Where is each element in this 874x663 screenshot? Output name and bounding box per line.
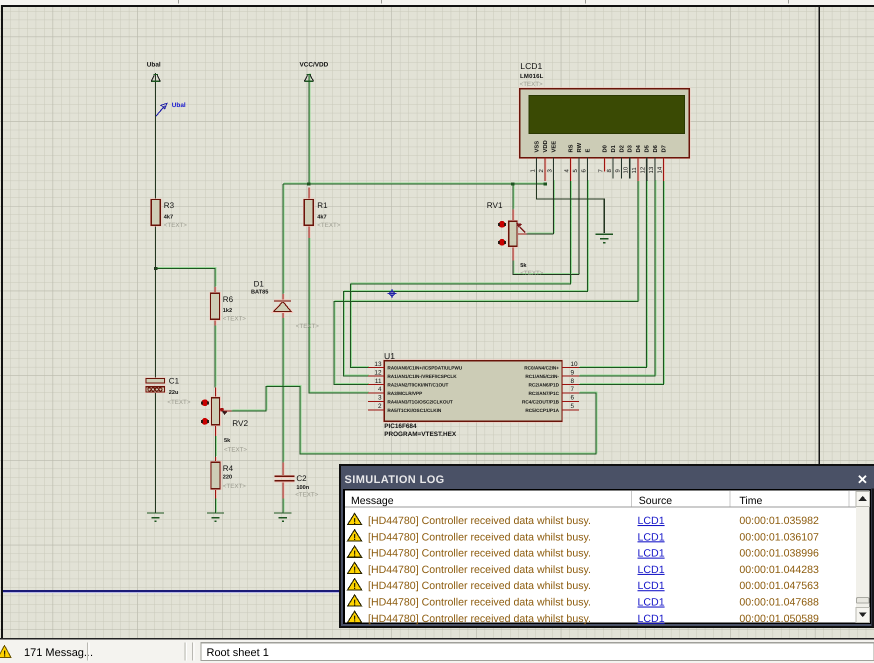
svg-text:LCD1: LCD1 — [638, 548, 665, 560]
ground (LCD VSS) — [596, 234, 613, 242]
red pin stubs RV1 — [513, 209, 527, 260]
wire VDD rail — [283, 183, 545, 185]
svg-text:RA2/AN2/T0CKI/INT/C1OUT: RA2/AN2/T0CKI/INT/C1OUT — [387, 383, 448, 388]
svg-text:5k: 5k — [224, 437, 231, 444]
svg-text:00:00:01.038996: 00:00:01.038996 — [739, 548, 819, 560]
svg-text:<TEXT>: <TEXT> — [520, 81, 543, 88]
header separators — [631, 491, 633, 507]
svg-text:Source: Source — [639, 495, 672, 507]
svg-text:<TEXT>: <TEXT> — [520, 270, 543, 277]
rotated pin names — [534, 140, 668, 152]
svg-text:00:00:01.050589: 00:00:01.050589 — [739, 613, 819, 625]
svg-text:RC5/CCP1/P1A: RC5/CCP1/P1A — [525, 408, 559, 413]
node A junction — [154, 267, 157, 270]
diode D1 — [251, 280, 319, 330]
svg-text:RC4/C2OUT/P1B: RC4/C2OUT/P1B — [522, 399, 560, 404]
svg-text:R4: R4 — [223, 464, 234, 473]
origin marker (blue diamond) — [388, 289, 397, 298]
potentiometer RV2 — [201, 398, 249, 454]
simulation log window — [340, 465, 874, 627]
svg-text:RV2: RV2 — [232, 419, 248, 428]
svg-text:2: 2 — [378, 403, 382, 410]
svg-text:Time: Time — [739, 495, 762, 507]
svg-text:5k: 5k — [520, 262, 527, 269]
left pin stubs — [368, 368, 385, 410]
svg-text:00:00:01.047563: 00:00:01.047563 — [739, 580, 819, 592]
capacitor C1 (electrolytic) — [146, 377, 191, 407]
svg-text:VSS: VSS — [534, 141, 541, 153]
svg-text:D1: D1 — [254, 280, 265, 289]
svg-text:<TEXT>: <TEXT> — [296, 323, 319, 330]
left pin numbers — [374, 361, 382, 410]
svg-text:5: 5 — [571, 403, 575, 410]
svg-text:1k2: 1k2 — [223, 307, 232, 314]
svg-text:[HD44780] Controller received: [HD44780] Controller received data whils… — [368, 531, 591, 543]
svg-text:D0: D0 — [601, 145, 608, 152]
svg-text:D6: D6 — [652, 144, 659, 152]
svg-text:9: 9 — [571, 369, 575, 376]
red pin stubs R3 column — [214, 287, 216, 325]
svg-text:!: ! — [353, 614, 356, 624]
svg-text:10: 10 — [623, 166, 630, 173]
sheet bottom border (dark blue) — [3, 591, 874, 593]
svg-text:[HD44780] Controller received: [HD44780] Controller received data whils… — [368, 548, 591, 560]
resistor R1 — [304, 200, 340, 230]
svg-text:171 Messag...: 171 Messag... — [24, 647, 93, 659]
svg-text:RV1: RV1 — [487, 201, 503, 210]
svg-text:4k7: 4k7 — [164, 214, 173, 221]
svg-text:!: ! — [353, 581, 356, 591]
svg-text:VEE: VEE — [552, 141, 558, 153]
svg-text:Message: Message — [351, 495, 394, 507]
wire node A to R6 and down pot chain — [156, 269, 216, 514]
svg-text:00:00:01.047688: 00:00:01.047688 — [739, 597, 819, 609]
svg-text:VDD: VDD — [543, 140, 549, 152]
svg-text:RA4/AN3/T1G/OSC2/CLKOUT: RA4/AN3/T1G/OSC2/CLKOUT — [387, 399, 453, 404]
svg-text:[HD44780] Controller received: [HD44780] Controller received data whils… — [368, 580, 591, 592]
right pin numbers — [571, 361, 579, 410]
actuator dots — [202, 399, 209, 406]
svg-text:00:00:01.035982: 00:00:01.035982 — [739, 515, 819, 527]
ground (C2) — [274, 513, 291, 521]
wire R3 bottom to node A — [155, 225, 157, 268]
actuator dots — [499, 221, 506, 228]
svg-text:PIC16F684: PIC16F684 — [384, 423, 417, 430]
resistor R3 — [151, 200, 187, 230]
list panel — [344, 490, 870, 623]
svg-text:D5: D5 — [645, 144, 651, 152]
wire C1 bottom to ground — [155, 392, 157, 513]
wire U1 pin7 to RV2 wiper — [231, 387, 596, 454]
svg-text:LCD1: LCD1 — [638, 564, 665, 576]
svg-text:D2: D2 — [618, 145, 625, 152]
svg-text:RC3/AN7/P1C: RC3/AN7/P1C — [529, 391, 560, 396]
right pin stubs — [562, 368, 579, 410]
wire R1 to MCLR pin4 — [309, 238, 368, 393]
svg-text:!: ! — [353, 548, 356, 558]
svg-text:14: 14 — [657, 166, 664, 173]
svg-text:U1: U1 — [384, 351, 395, 361]
red pin stub RV2 wiper — [220, 410, 231, 412]
svg-text:R6: R6 — [223, 295, 234, 304]
svg-text:LCD1: LCD1 — [638, 515, 665, 527]
svg-text:3: 3 — [378, 395, 382, 402]
wire VCC stem — [308, 74, 310, 184]
svg-text:[HD44780] Controller received: [HD44780] Controller received data whils… — [368, 564, 591, 576]
svg-text:[HD44780] Controller received: [HD44780] Controller received data whils… — [368, 515, 591, 527]
svg-text:00:00:01.036107: 00:00:01.036107 — [739, 531, 819, 543]
svg-text:10: 10 — [571, 361, 579, 368]
svg-text:!: ! — [353, 597, 356, 607]
svg-text:D7: D7 — [662, 145, 668, 152]
wire LCD RS to U1 pin13 — [351, 181, 571, 368]
svg-text:00:00:01.044283: 00:00:01.044283 — [739, 564, 819, 576]
svg-text:11: 11 — [375, 378, 382, 385]
svg-text:12: 12 — [374, 369, 382, 376]
svg-text:<TEXT>: <TEXT> — [164, 222, 187, 229]
wire LCD D4 to U1 pin11 — [334, 181, 638, 385]
svg-text:!: ! — [353, 532, 356, 542]
pink companions of red pin stubs — [216, 158, 665, 499]
power terminal VCC/VDD — [300, 62, 329, 82]
svg-text:C1: C1 — [169, 377, 180, 386]
svg-text:RS: RS — [568, 144, 575, 152]
svg-text:RA3/MCLR/VPP: RA3/MCLR/VPP — [387, 391, 422, 396]
svg-text:✕: ✕ — [857, 472, 868, 487]
svg-text:D3: D3 — [627, 144, 634, 152]
window frame — [340, 465, 874, 627]
svg-text:R1: R1 — [317, 201, 328, 210]
svg-text:220: 220 — [223, 475, 232, 481]
right pin names — [522, 366, 560, 413]
svg-text:RC0/AN4/C2IN+: RC0/AN4/C2IN+ — [524, 366, 559, 371]
svg-text:<TEXT>: <TEXT> — [295, 492, 318, 499]
rotated pin numbers — [530, 166, 664, 173]
svg-text:RA5/T1CKI/OSC1/CLKIN: RA5/T1CKI/OSC1/CLKIN — [387, 408, 442, 413]
wire LCD E to U1 pin12 — [344, 181, 588, 376]
svg-text:<TEXT>: <TEXT> — [317, 222, 340, 229]
wire label Ubal (blue) — [156, 102, 186, 116]
wiper arrow — [220, 408, 224, 412]
svg-text:RA0/AN0/C1IN+/ICSPDAT/ULPWU: RA0/AN0/C1IN+/ICSPDAT/ULPWU — [387, 366, 462, 371]
svg-text:Root sheet 1: Root sheet 1 — [207, 647, 269, 659]
junction RV1/rail — [511, 182, 514, 185]
scrollbar — [856, 491, 870, 623]
svg-text:D4: D4 — [636, 144, 642, 152]
svg-text:6: 6 — [571, 395, 575, 402]
svg-text:11: 11 — [631, 167, 638, 174]
svg-text:LCD1: LCD1 — [520, 61, 542, 71]
svg-text:RA1/AN1/C1IN-/VREF/ICSPCLK: RA1/AN1/C1IN-/VREF/ICSPCLK — [387, 374, 457, 379]
potentiometer RV1 — [487, 201, 544, 277]
svg-text:100n: 100n — [296, 485, 309, 491]
status bar — [0, 638, 874, 663]
ground (C1) — [147, 513, 164, 521]
svg-text:PROGRAM=VTEST.HEX: PROGRAM=VTEST.HEX — [384, 431, 457, 438]
sheet right border — [818, 7, 820, 465]
wiper arrow — [520, 227, 526, 233]
wire RV1 top from rail — [512, 184, 514, 209]
LOG_ROWS — [348, 513, 819, 624]
power terminal Ubal — [147, 62, 161, 82]
wire RV1 bottom to LCD RW — [513, 181, 579, 275]
editor frame border top — [1, 5, 874, 7]
svg-text:[HD44780] Controller received: [HD44780] Controller received data whils… — [368, 597, 591, 609]
wire node A down to C1 — [155, 269, 157, 379]
status warning icon (clipped) — [0, 646, 11, 658]
root sheet box — [201, 643, 874, 661]
svg-text:!: ! — [353, 516, 356, 526]
resistor R4 — [211, 462, 246, 490]
red pin stubs D1/C2 — [282, 294, 284, 498]
svg-text:SIMULATION LOG: SIMULATION LOG — [345, 474, 445, 486]
editor frame border left — [1, 5, 3, 638]
junction VCC/rail — [307, 182, 310, 185]
svg-text:8: 8 — [571, 378, 575, 385]
svg-text:<TEXT>: <TEXT> — [224, 446, 247, 453]
svg-text:RC1/AN5/C2IN-: RC1/AN5/C2IN- — [525, 374, 559, 379]
svg-text:!: ! — [3, 649, 6, 659]
light-green companions of live green wires — [157, 73, 665, 512]
svg-text:[HD44780] Controller received: [HD44780] Controller received data whils… — [368, 613, 591, 625]
svg-text:<TEXT>: <TEXT> — [223, 315, 246, 322]
svg-text:13: 13 — [648, 166, 655, 173]
wire Ubal: power stem down to R3 — [155, 73, 157, 200]
svg-text:D1: D1 — [611, 144, 617, 152]
svg-text:E: E — [585, 149, 591, 153]
svg-text:LCD1: LCD1 — [638, 597, 665, 609]
capacitor C2 — [275, 474, 319, 498]
wire LCD VSS to ground — [537, 181, 605, 233]
svg-text:BAT85: BAT85 — [251, 290, 268, 296]
wire RV1 wiper to VEE — [527, 181, 554, 234]
resistor R6 — [211, 293, 247, 322]
wire LCD D7 to U1 pin8 — [579, 181, 664, 385]
top ruler strip — [0, 0, 874, 5]
wire D1 column — [282, 184, 284, 513]
svg-text:12: 12 — [640, 166, 647, 173]
svg-text:4: 4 — [378, 386, 382, 393]
svg-text:LCD1: LCD1 — [638, 613, 665, 625]
wire LCD D6 to U1 pin9 — [579, 181, 655, 376]
microcontroller U1 PIC16F684 — [368, 351, 579, 438]
wire LCD D5 to U1 pin10 — [579, 181, 647, 368]
svg-text:RW: RW — [577, 142, 583, 152]
red pin stubs R1 — [308, 188, 310, 238]
svg-text:<TEXT>: <TEXT> — [167, 399, 190, 406]
svg-text:LCD1: LCD1 — [638, 580, 665, 592]
svg-text:VCC/VDD: VCC/VDD — [300, 62, 329, 69]
svg-text:R3: R3 — [164, 201, 175, 210]
svg-text:Ubal: Ubal — [147, 62, 161, 69]
svg-text:7: 7 — [571, 386, 575, 393]
svg-text:!: ! — [353, 565, 356, 575]
red pin stubs RV2/R4 — [215, 387, 217, 498]
svg-text:22u: 22u — [169, 390, 179, 396]
LCD pin stubs — [537, 158, 656, 181]
svg-text:RC2/AN6/P1D: RC2/AN6/P1D — [529, 383, 560, 388]
ground (R4) — [207, 513, 224, 521]
LCD1 LM016L — [520, 61, 690, 181]
svg-text:LCD1: LCD1 — [638, 531, 665, 543]
svg-text:4k7: 4k7 — [317, 214, 326, 221]
left pin names — [387, 366, 462, 413]
junction LCD VDD/rail — [543, 182, 546, 185]
svg-text:LM016L: LM016L — [520, 73, 544, 80]
svg-text:Ubal: Ubal — [172, 102, 186, 109]
svg-text:C2: C2 — [296, 474, 307, 483]
svg-text:13: 13 — [374, 361, 382, 368]
svg-text:<TEXT>: <TEXT> — [223, 483, 246, 490]
